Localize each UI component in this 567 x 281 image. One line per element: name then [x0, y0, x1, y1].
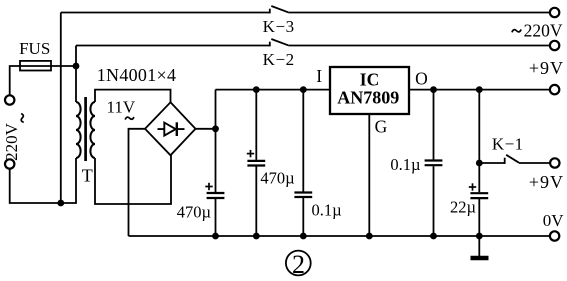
transformer T secondary winding	[90, 102, 95, 158]
wire: switch node to K-1 contact	[479, 162, 504, 164]
wire: secondary bottom to bridge bottom corner	[95, 155, 171, 204]
terminal: ~220V output a	[550, 8, 559, 17]
node: junction bottom-left	[57, 200, 64, 207]
node: fuse output junction	[73, 63, 80, 70]
svg-text:FUS: FUS	[19, 39, 50, 58]
svg-text:0V: 0V	[543, 211, 565, 230]
switch K-1	[504, 158, 506, 164]
wire: 0V bottom rail	[129, 235, 550, 237]
capacitor C4 0.1u wires	[433, 90, 435, 160]
capacitor C3 0.1u plates	[294, 191, 312, 193]
terminal: 220V input top	[5, 95, 14, 104]
node: C2 bottom on 0V rail	[253, 233, 260, 240]
wire: K-1 to +9V output 2 terminal	[519, 162, 550, 164]
figure number 2 (circled)	[286, 251, 311, 276]
wire: top input terminal to fuse	[10, 66, 76, 95]
svg-text:220V: 220V	[2, 122, 21, 161]
capacitor C1 470u plates	[207, 192, 225, 194]
capacitor C3 0.1u wires	[302, 90, 304, 192]
node: C3 top on +rail	[300, 86, 307, 93]
fuse FUS	[20, 61, 51, 71]
node: C5 bottom on 0V rail	[476, 233, 483, 240]
svg-text:2: 2	[292, 250, 305, 279]
label: ~ (AC) for 11V	[125, 117, 134, 120]
wire: K-3 rail right segment	[288, 12, 550, 14]
wire: +rail from bridge to IC input	[216, 89, 331, 91]
wire: bridge positive (right corner) to node	[196, 128, 216, 130]
node: K-1 branch on +9V rail	[476, 86, 483, 93]
wire: left vertical to K-3 rail	[60, 13, 62, 204]
wire: secondary top to bridge top corner	[95, 90, 171, 103]
node: C4 top on +9V rail	[430, 86, 437, 93]
svg-text:470µ: 470µ	[260, 168, 294, 187]
wire: K-2 rail right segment	[288, 45, 550, 47]
node: C3 bottom on 0V rail	[300, 233, 307, 240]
polarity + of C2	[247, 150, 254, 157]
svg-text:O: O	[415, 69, 428, 89]
terminal: 220V input bottom	[5, 159, 14, 168]
wire: junction down to transformer primary	[75, 66, 77, 102]
svg-text:+9V: +9V	[529, 172, 564, 192]
diode symbol inside bridge	[158, 122, 185, 136]
switch K-2	[269, 42, 271, 47]
wire: bridge + node up to +rail	[215, 90, 217, 129]
terminal: ~220V output b	[550, 41, 559, 50]
wire: junction up to K-2 rail	[75, 46, 77, 67]
bridge rectifier 1N4001x4	[145, 102, 196, 155]
svg-text:0.1µ: 0.1µ	[312, 201, 342, 220]
wire: bridge negative (left corner) down to 0V rail	[129, 129, 146, 236]
node: G pin on 0V rail	[366, 233, 373, 240]
svg-text:AN7809: AN7809	[337, 87, 399, 107]
node: switch K-1 junction	[476, 160, 483, 167]
svg-text:470µ: 470µ	[177, 202, 211, 221]
svg-text:T: T	[82, 166, 93, 186]
label: ~ (AC) for 220V input	[21, 114, 24, 123]
svg-text:1N4001×4: 1N4001×4	[97, 65, 177, 85]
node: C2 top on +rail	[253, 86, 260, 93]
node: C4 bottom on 0V rail	[430, 233, 437, 240]
wire: IC ground pin down to 0V rail	[368, 114, 370, 236]
op-amp: voltage regulator IC AN7809 box	[330, 67, 409, 114]
capacitor C2 470u plates	[247, 160, 265, 162]
capacitor C5 22u plates	[470, 192, 488, 194]
svg-text:+9V: +9V	[529, 58, 564, 78]
node: C1 bottom on 0V rail	[212, 233, 219, 240]
svg-text:K−1: K−1	[492, 135, 524, 154]
wire: K-3 rail left segment	[61, 12, 270, 14]
svg-text:K−2: K−2	[263, 50, 295, 69]
wire: +9V rail down to switch node	[478, 90, 480, 163]
svg-text:22µ: 22µ	[450, 198, 476, 217]
capacitor C4 0.1u plates	[425, 159, 443, 161]
svg-text:K−3: K−3	[263, 17, 295, 36]
wire: +9V rail from IC output to terminal	[409, 89, 550, 91]
svg-text:11V: 11V	[106, 98, 135, 117]
terminal: +9V output 1	[550, 85, 559, 94]
wire: bottom input terminal to primary bottom	[10, 158, 76, 203]
svg-text:G: G	[375, 117, 388, 137]
capacitor C1 470u wires	[215, 129, 217, 192]
node: bridge + junction	[212, 125, 219, 132]
polarity + of C1	[205, 183, 212, 190]
switch K-3	[269, 9, 271, 14]
polarity + of C5	[469, 183, 476, 190]
svg-text:0.1µ: 0.1µ	[390, 155, 420, 174]
capacitor C2 470u wires	[255, 90, 257, 160]
terminal: +9V output 2	[550, 158, 559, 167]
capacitor C5 22u wires	[478, 163, 480, 192]
terminal: 0V output	[550, 231, 559, 240]
svg-text:220V: 220V	[524, 21, 563, 41]
transformer T core	[84, 97, 87, 161]
transformer T primary winding	[76, 102, 81, 158]
svg-text:I: I	[316, 66, 322, 86]
ground symbol	[478, 236, 480, 256]
wire: K-2 rail left segment	[76, 45, 270, 47]
